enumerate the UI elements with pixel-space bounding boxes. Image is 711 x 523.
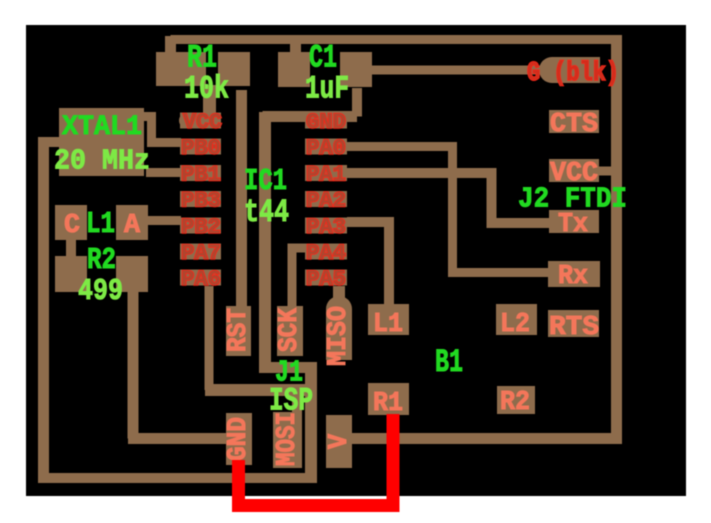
wire vertical right of MOSI: [305, 362, 317, 478]
IC1 pin PA5 pad: [305, 270, 347, 286]
wire PA4 pin to SCK pad: [292, 248, 305, 307]
svg-text:PA6: PA6: [181, 267, 221, 292]
svg-text:PA0: PA0: [306, 136, 346, 161]
connector J2 pad G: [539, 57, 600, 83]
resistor R2 pad 1: [55, 256, 87, 292]
wire R1 pad1 down to IC VCC pin: [203, 85, 216, 115]
wire FTDI VCC pad to right bus: [599, 167, 612, 176]
pad L2: [496, 304, 537, 335]
svg-text:MOSI: MOSI: [273, 412, 303, 466]
connector J1 pad GND: [226, 413, 252, 465]
connector J2 pad RTS: [548, 310, 599, 337]
rats-nest red trace GND to R1: [239, 414, 394, 506]
capacitor C1 pad 2: [340, 52, 372, 87]
IC1 pin PB2 pad: [180, 217, 221, 233]
capacitor C1 pad 1: [278, 52, 310, 87]
wire PA6 pin down and right: [205, 286, 214, 390]
connector J2 pad CTS: [549, 110, 599, 133]
svg-text:RTS: RTS: [549, 313, 599, 343]
wire GND elbow right above MOSI: [259, 362, 317, 373]
connector J1 pad RST: [226, 306, 251, 356]
pad R1: [368, 383, 409, 415]
svg-text:PA1: PA1: [306, 162, 346, 187]
wire VCC top bus: [171, 35, 618, 44]
svg-text:GND: GND: [224, 417, 254, 461]
wire XTAL1 to PB0 pin: [144, 117, 181, 143]
svg-text:t44: t44: [244, 194, 289, 231]
svg-text:J2 FTDI: J2 FTDI: [518, 183, 627, 216]
IC1 pin VCC pad: [180, 113, 221, 129]
svg-text:PA4: PA4: [306, 241, 346, 266]
wire MOSI pad stub up: [292, 395, 302, 413]
svg-text:G (blk): G (blk): [527, 59, 619, 89]
svg-text:MISO: MISO: [324, 306, 354, 366]
IC1 pin PA4 pad: [305, 244, 347, 260]
wire bottom-right horizontal to V pad: [352, 433, 622, 444]
resistor R1 pad 2: [218, 52, 250, 86]
svg-text:C: C: [64, 211, 80, 241]
svg-text:PA7: PA7: [181, 241, 221, 266]
svg-text:1uF: 1uF: [305, 71, 349, 108]
LED L1 pad C: [55, 205, 87, 240]
wire LED cathode to R2 pad1: [66, 240, 76, 256]
crystal XTAL1 body: [59, 108, 144, 176]
IC1 pin PB0 pad: [180, 139, 221, 155]
svg-text:ISP: ISP: [269, 383, 313, 420]
svg-text:VCC: VCC: [183, 110, 222, 135]
connector J1 pad MISO: [326, 296, 352, 360]
svg-text:R2: R2: [87, 243, 116, 278]
connector J2 pad VCC: [549, 159, 599, 182]
wire bottom-left long horizontal: [38, 473, 317, 483]
svg-text:10k: 10k: [184, 71, 229, 108]
IC1 pin PA7 pad: [180, 244, 221, 260]
svg-text:499: 499: [78, 274, 123, 309]
wire PA5 pin to MISO pad: [333, 286, 345, 298]
wire R1 pad2 down to RST pad: [236, 90, 247, 307]
wire C1 pad2 down: [352, 88, 362, 117]
wire C1 pad2 to G pad: [372, 66, 540, 75]
svg-text:PA2: PA2: [306, 189, 346, 214]
IC1 pin GND pad: [305, 113, 347, 129]
resistor R2 pad 2: [116, 256, 148, 292]
wire PA1 pin to Tx pad: [347, 168, 549, 228]
svg-text:RST: RST: [224, 308, 254, 352]
svg-text:PB0: PB0: [181, 136, 221, 161]
svg-text:PB2: PB2: [181, 215, 221, 240]
wire GND vertical between IC columns: [259, 112, 271, 368]
wire left vertical bus: [38, 139, 49, 483]
wire PA0 pin to Rx pad: [347, 142, 549, 277]
svg-text:XTAL1: XTAL1: [62, 112, 142, 143]
svg-text:CTS: CTS: [550, 110, 598, 140]
wire right vertical bus: [611, 35, 622, 444]
svg-text:GND: GND: [306, 110, 346, 135]
svg-text:PA3: PA3: [306, 215, 346, 240]
connector J2 pad Tx: [549, 210, 599, 233]
connector J1 pad MOSI: [273, 412, 302, 468]
wire stub top bus to C1 pad1: [290, 43, 301, 53]
pad L1: [368, 304, 409, 335]
wire R2 pad2 down to ISP GND pad: [128, 292, 227, 439]
svg-text:Rx: Rx: [558, 262, 588, 292]
IC1 pin PA3 pad: [305, 217, 347, 233]
svg-text:PA5: PA5: [306, 267, 346, 292]
resistor R1 pad 1: [156, 52, 206, 86]
IC1 pin PB1 pad: [180, 165, 221, 181]
svg-text:V: V: [325, 433, 355, 449]
wire GND horizontal into IC GND pin: [263, 111, 358, 122]
wire LED anode to PB2 pin: [148, 216, 181, 225]
wire elbow into R1 pad1: [165, 36, 176, 52]
svg-text:PB3: PB3: [181, 189, 221, 214]
svg-text:R2: R2: [500, 388, 530, 418]
IC1 pin PA6 pad: [180, 270, 221, 286]
connector J1 pad V: [326, 415, 352, 468]
IC1 pin PA1 pad: [305, 165, 347, 181]
svg-text:L2: L2: [500, 310, 530, 340]
wire XTAL1 left elbow: [38, 137, 60, 147]
IC1 pin PA2 pad: [305, 191, 347, 207]
IC1 pin PA0 pad: [305, 139, 347, 155]
svg-text:L1: L1: [373, 310, 403, 340]
svg-text:SCK: SCK: [275, 307, 305, 352]
svg-text:20 MHz: 20 MHz: [54, 145, 150, 178]
svg-text:A: A: [124, 211, 141, 241]
pad R2: [497, 386, 535, 414]
svg-text:B1: B1: [435, 344, 463, 381]
wire PA3 pin to L1 pad: [347, 217, 389, 305]
connector J2 pad Rx: [548, 261, 600, 287]
svg-text:L1: L1: [86, 207, 115, 242]
svg-text:PB1: PB1: [181, 162, 221, 187]
wire XTAL1 to PB1 pin: [146, 168, 181, 177]
LED L1 pad A: [116, 205, 148, 240]
IC1 pin PB3 pad: [180, 191, 221, 207]
connector J1 pad SCK: [277, 306, 303, 356]
